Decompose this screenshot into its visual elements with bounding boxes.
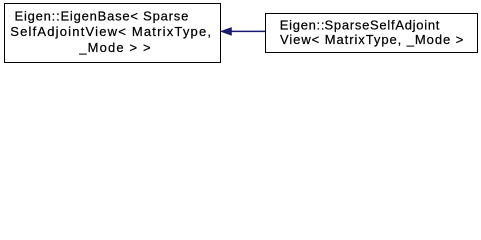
inheritance arrow shaft <box>231 30 266 32</box>
node box Eigen::SparseSelfAdjointView (derived class) <box>266 14 478 53</box>
svg-text:View< MatrixType, _Mode >: View< MatrixType, _Mode > <box>280 32 463 47</box>
svg-text:SelfAdjointView< MatrixType,: SelfAdjointView< MatrixType, <box>10 24 211 39</box>
node box Eigen::EigenBase (base class) <box>5 4 221 63</box>
svg-text:Eigen::EigenBase< Sparse: Eigen::EigenBase< Sparse <box>15 9 189 24</box>
svg-text:Eigen::: Eigen:: <box>280 17 325 32</box>
svg-text:SparseSelfAdjoint: SparseSelfAdjoint <box>325 17 440 32</box>
svg-text:_Mode > >: _Mode > > <box>78 40 150 55</box>
inheritance arrowhead <box>221 28 232 36</box>
